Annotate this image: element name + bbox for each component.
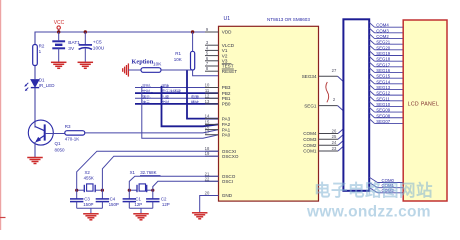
svg-text:32.768K: 32.768K [140,170,156,175]
svg-text:BAT1: BAT1 [68,40,80,46]
svg-text:Keption: Keption [132,59,154,66]
pin 25 COM3 [303,134,343,142]
svg-text:24: 24 [332,140,337,145]
capacitor C1 12P [123,190,143,208]
wire column to PA0 pin17 [142,86,219,138]
wire COM2 to LCD [369,34,403,39]
wire X2 bottom rail [77,208,103,213]
battery BAT1 3V [52,32,80,62]
bus rectangle [343,19,369,191]
wire SEG16 to LCD [369,68,403,73]
junction X1 right [151,189,154,192]
U1 part number NT8613 OR SM8603 [267,17,310,22]
svg-text:COM3: COM3 [376,28,389,33]
svg-text:X1: X1 [130,170,136,175]
svg-text:SEG18: SEG18 [376,57,390,62]
wire SEG11 to LCD [369,96,403,101]
wire SEG19 to LCD [369,51,403,56]
svg-text:U1: U1 [224,16,231,22]
svg-text:定时: 定时 [161,100,169,105]
svg-text:10K: 10K [153,62,162,67]
svg-text:电源: 电源 [191,94,199,99]
svg-text:www.ondzz.com: www.ondzz.com [306,204,431,221]
svg-text:COM3: COM3 [303,137,317,142]
svg-text:SEG20: SEG20 [376,45,390,50]
svg-text:COM4: COM4 [303,131,317,136]
svg-text:R2: R2 [39,44,45,49]
wire SEG20 to LCD [369,45,403,50]
junction VCC/rail [57,30,60,33]
pin 7 TEST [205,61,234,69]
crystal X2 455K [77,170,103,192]
svg-text:GND: GND [222,193,233,198]
wire column to PA3 pin14 [187,70,219,118]
ground under X1 [133,214,149,220]
pin 17 PA0 [205,130,231,138]
svg-text:SEG21: SEG21 [376,40,390,45]
pin 14 PA3 [205,114,231,122]
svg-text:455K: 455K [84,175,94,180]
wire SEG18 to LCD [369,56,403,61]
wire COM3 to LCD [369,28,403,33]
svg-text:LCD PANEL: LCD PANEL [408,102,440,108]
pin 23 COM1 [303,146,343,154]
ground under IC GND [192,213,208,219]
svg-text:SEG19: SEG19 [376,51,390,56]
svg-text:470-1K: 470-1K [65,136,80,141]
wire GND pin to ground [200,196,219,213]
svg-text:17: 17 [205,130,210,135]
wire SEG08 to LCD [369,113,403,118]
junction X1 left [128,189,131,192]
svg-text:150P: 150P [83,202,93,207]
LCD panel [403,20,447,201]
wire SEG14 to LCD [369,79,403,84]
svg-text:SEG17: SEG17 [376,62,390,67]
svg-text:SEG1: SEG1 [304,103,317,108]
svg-text:3V: 3V [68,46,75,52]
keypad function labels [142,84,199,105]
svg-text:COM2: COM2 [303,143,317,148]
pin 3 VLCD [205,40,235,48]
svg-text:12P: 12P [162,202,170,207]
svg-text:COM4: COM4 [376,23,389,28]
svg-text:IR_LED: IR_LED [39,83,56,88]
pin 16 PA1 [205,125,231,133]
wire PB3 row [135,87,219,89]
svg-text:SEG10: SEG10 [376,102,390,107]
ground under Q1 emitter [27,158,43,164]
capacitor C4 150P [96,190,119,208]
U1 designator [224,16,231,22]
svg-text:PA3: PA3 [222,116,231,121]
svg-text:C3: C3 [84,196,90,201]
svg-text:RESET: RESET [222,69,238,74]
wire LED to Q1 collector [34,88,36,124]
wire COM2 to LCD [369,188,403,194]
more-pins squiggle [326,82,329,102]
pin 19 OSCXO [205,151,239,159]
svg-text:SEG13: SEG13 [376,85,390,90]
wire SEG07 to LCD [369,119,403,124]
wire SEG09 to LCD [369,107,403,112]
svg-text:+C5: +C5 [93,39,102,45]
transistor Q1 8050 [28,120,65,157]
svg-text:23: 23 [332,146,337,151]
wire R1 bottom into IC [193,70,219,76]
svg-text:100U: 100U [93,46,105,52]
junction X2 left [75,189,78,192]
svg-text:播放: 播放 [191,100,199,105]
svg-text:VCC: VCC [54,20,65,26]
svg-text:Q1: Q1 [55,141,62,146]
wire SEG10 to LCD [369,102,403,107]
capacitor C3 150P [70,190,94,208]
wire PB1 row [135,97,219,99]
svg-text:COM1: COM1 [303,149,317,154]
wire X1 left to OSCO [129,176,218,190]
pin 6 V3 [205,56,228,64]
op-amp U1 IC body [219,26,319,201]
capacitor C5 100U [79,32,105,62]
svg-text:20: 20 [205,191,210,196]
svg-text:SEG16: SEG16 [376,68,390,73]
resistor Keption 10K [128,59,192,73]
pin 8 RESET [205,66,237,74]
pin 13 PB0 [205,99,231,107]
svg-text:C4: C4 [110,196,116,201]
svg-text:OSCXO: OSCXO [222,154,239,159]
pin 22 OSCI [205,176,233,184]
ground under X2 [83,214,99,220]
pin 5 V2 [205,51,228,59]
svg-text:闹钟: 闹钟 [161,84,169,89]
svg-text:R3: R3 [65,124,71,129]
svg-text:X2: X2 [85,170,91,175]
svg-text:SEG11: SEG11 [376,96,390,101]
wire COM1 to LCD [369,182,403,188]
wire COM0 to LCD [369,177,403,183]
wire X2 left to OSCXI [77,151,219,190]
pin 11 PB2 [205,88,231,96]
pin 27 SEG34 [302,68,344,82]
wire SEG17 to LCD [369,62,403,67]
resistor R1 10K [174,32,195,70]
svg-text:SEG34: SEG34 [302,74,317,79]
ground under BAT1 [51,62,66,68]
svg-text:14: 14 [205,114,210,119]
svg-text:8050: 8050 [55,148,66,153]
sheet border left edge [0,0,6,230]
wire COM4 to LCD [369,22,403,27]
svg-text:PB3: PB3 [222,85,231,90]
resistor R3 470-1K [53,124,84,141]
svg-text:SEG14: SEG14 [376,79,390,84]
svg-text:PA0: PA0 [222,132,231,137]
svg-text:10: 10 [205,83,210,88]
svg-text:电子电路图网站: 电子电路图网站 [314,180,433,200]
pin 4 V1 [205,45,228,53]
svg-text:25: 25 [332,134,337,139]
junction X2 right [101,189,104,192]
svg-text:SEG07: SEG07 [376,119,390,124]
svg-text:C1: C1 [135,196,141,201]
antenna ground symbol (rotated) [123,63,129,76]
svg-text:PB1: PB1 [222,96,231,101]
junction C5/rail [84,30,87,33]
wire SEG21 to LCD [369,39,403,44]
LED D1 IR_LED [24,77,55,91]
svg-text:VDD: VDD [222,30,232,35]
svg-text:八度: 八度 [161,94,169,99]
resistor R2 [33,44,45,66]
wire X2 right to OSCXO [102,156,218,190]
pin 20 GND [205,191,233,199]
svg-text:SEG12: SEG12 [376,91,390,96]
wire R3 to PA1 pin16 [85,130,219,133]
wire column to PA2 pin15 [162,86,219,126]
svg-text:PB0: PB0 [222,102,231,107]
svg-text:C2: C2 [161,196,167,201]
svg-text:NT8613 OR SM8603: NT8613 OR SM8603 [267,17,310,22]
svg-text:12P: 12P [134,202,142,207]
svg-text:150P: 150P [109,202,119,207]
svg-text:演示←: 演示← [142,100,154,105]
pin 10 PB3 [205,83,231,91]
svg-text:19: 19 [205,151,210,156]
VCC power symbol [54,20,65,32]
junction R1/rail [191,30,194,33]
svg-text:SEG08: SEG08 [376,113,390,118]
pin 15 PA2 [205,119,231,127]
pin 9 VDD [205,27,232,35]
svg-text:R1: R1 [175,51,181,56]
svg-text:26: 26 [332,129,337,134]
capacitor C2 12P [146,190,170,208]
wire VDD rail [35,32,219,79]
wire X1 bottom rail [129,208,153,213]
svg-text:COM2: COM2 [376,34,389,39]
pin 26 COM4 [303,129,343,137]
watermark [306,180,433,221]
svg-text:10K: 10K [174,57,182,62]
wire PB0 row [135,103,219,105]
wire SEG15 to LCD [369,73,403,78]
wire X1 right to OSCI [153,181,219,190]
svg-text:22: 22 [205,176,210,181]
svg-text:13: 13 [205,99,210,104]
svg-text:定时-: 定时- [142,84,152,89]
pin 18 OSCXI [205,146,236,154]
wire PB2 row [135,92,219,94]
pin 12 PB1 [205,93,231,101]
svg-text:OSCI: OSCI [222,179,233,184]
pin 21 OSCO [205,171,236,179]
pin 2 SEG1 [304,97,343,111]
svg-text:SEG15: SEG15 [376,74,390,79]
wire SEG12 to LCD [369,90,403,95]
svg-text:SEG09: SEG09 [376,108,390,113]
svg-text:27: 27 [332,68,337,73]
svg-text:D1: D1 [39,77,45,82]
wire SEG13 to LCD [369,85,403,90]
svg-text:12: 12 [205,93,210,98]
crystal X1 32.768K [129,170,160,192]
svg-text:演示-: 演示- [142,94,152,99]
ground under C5 [78,62,94,68]
pin 24 COM2 [303,140,343,148]
